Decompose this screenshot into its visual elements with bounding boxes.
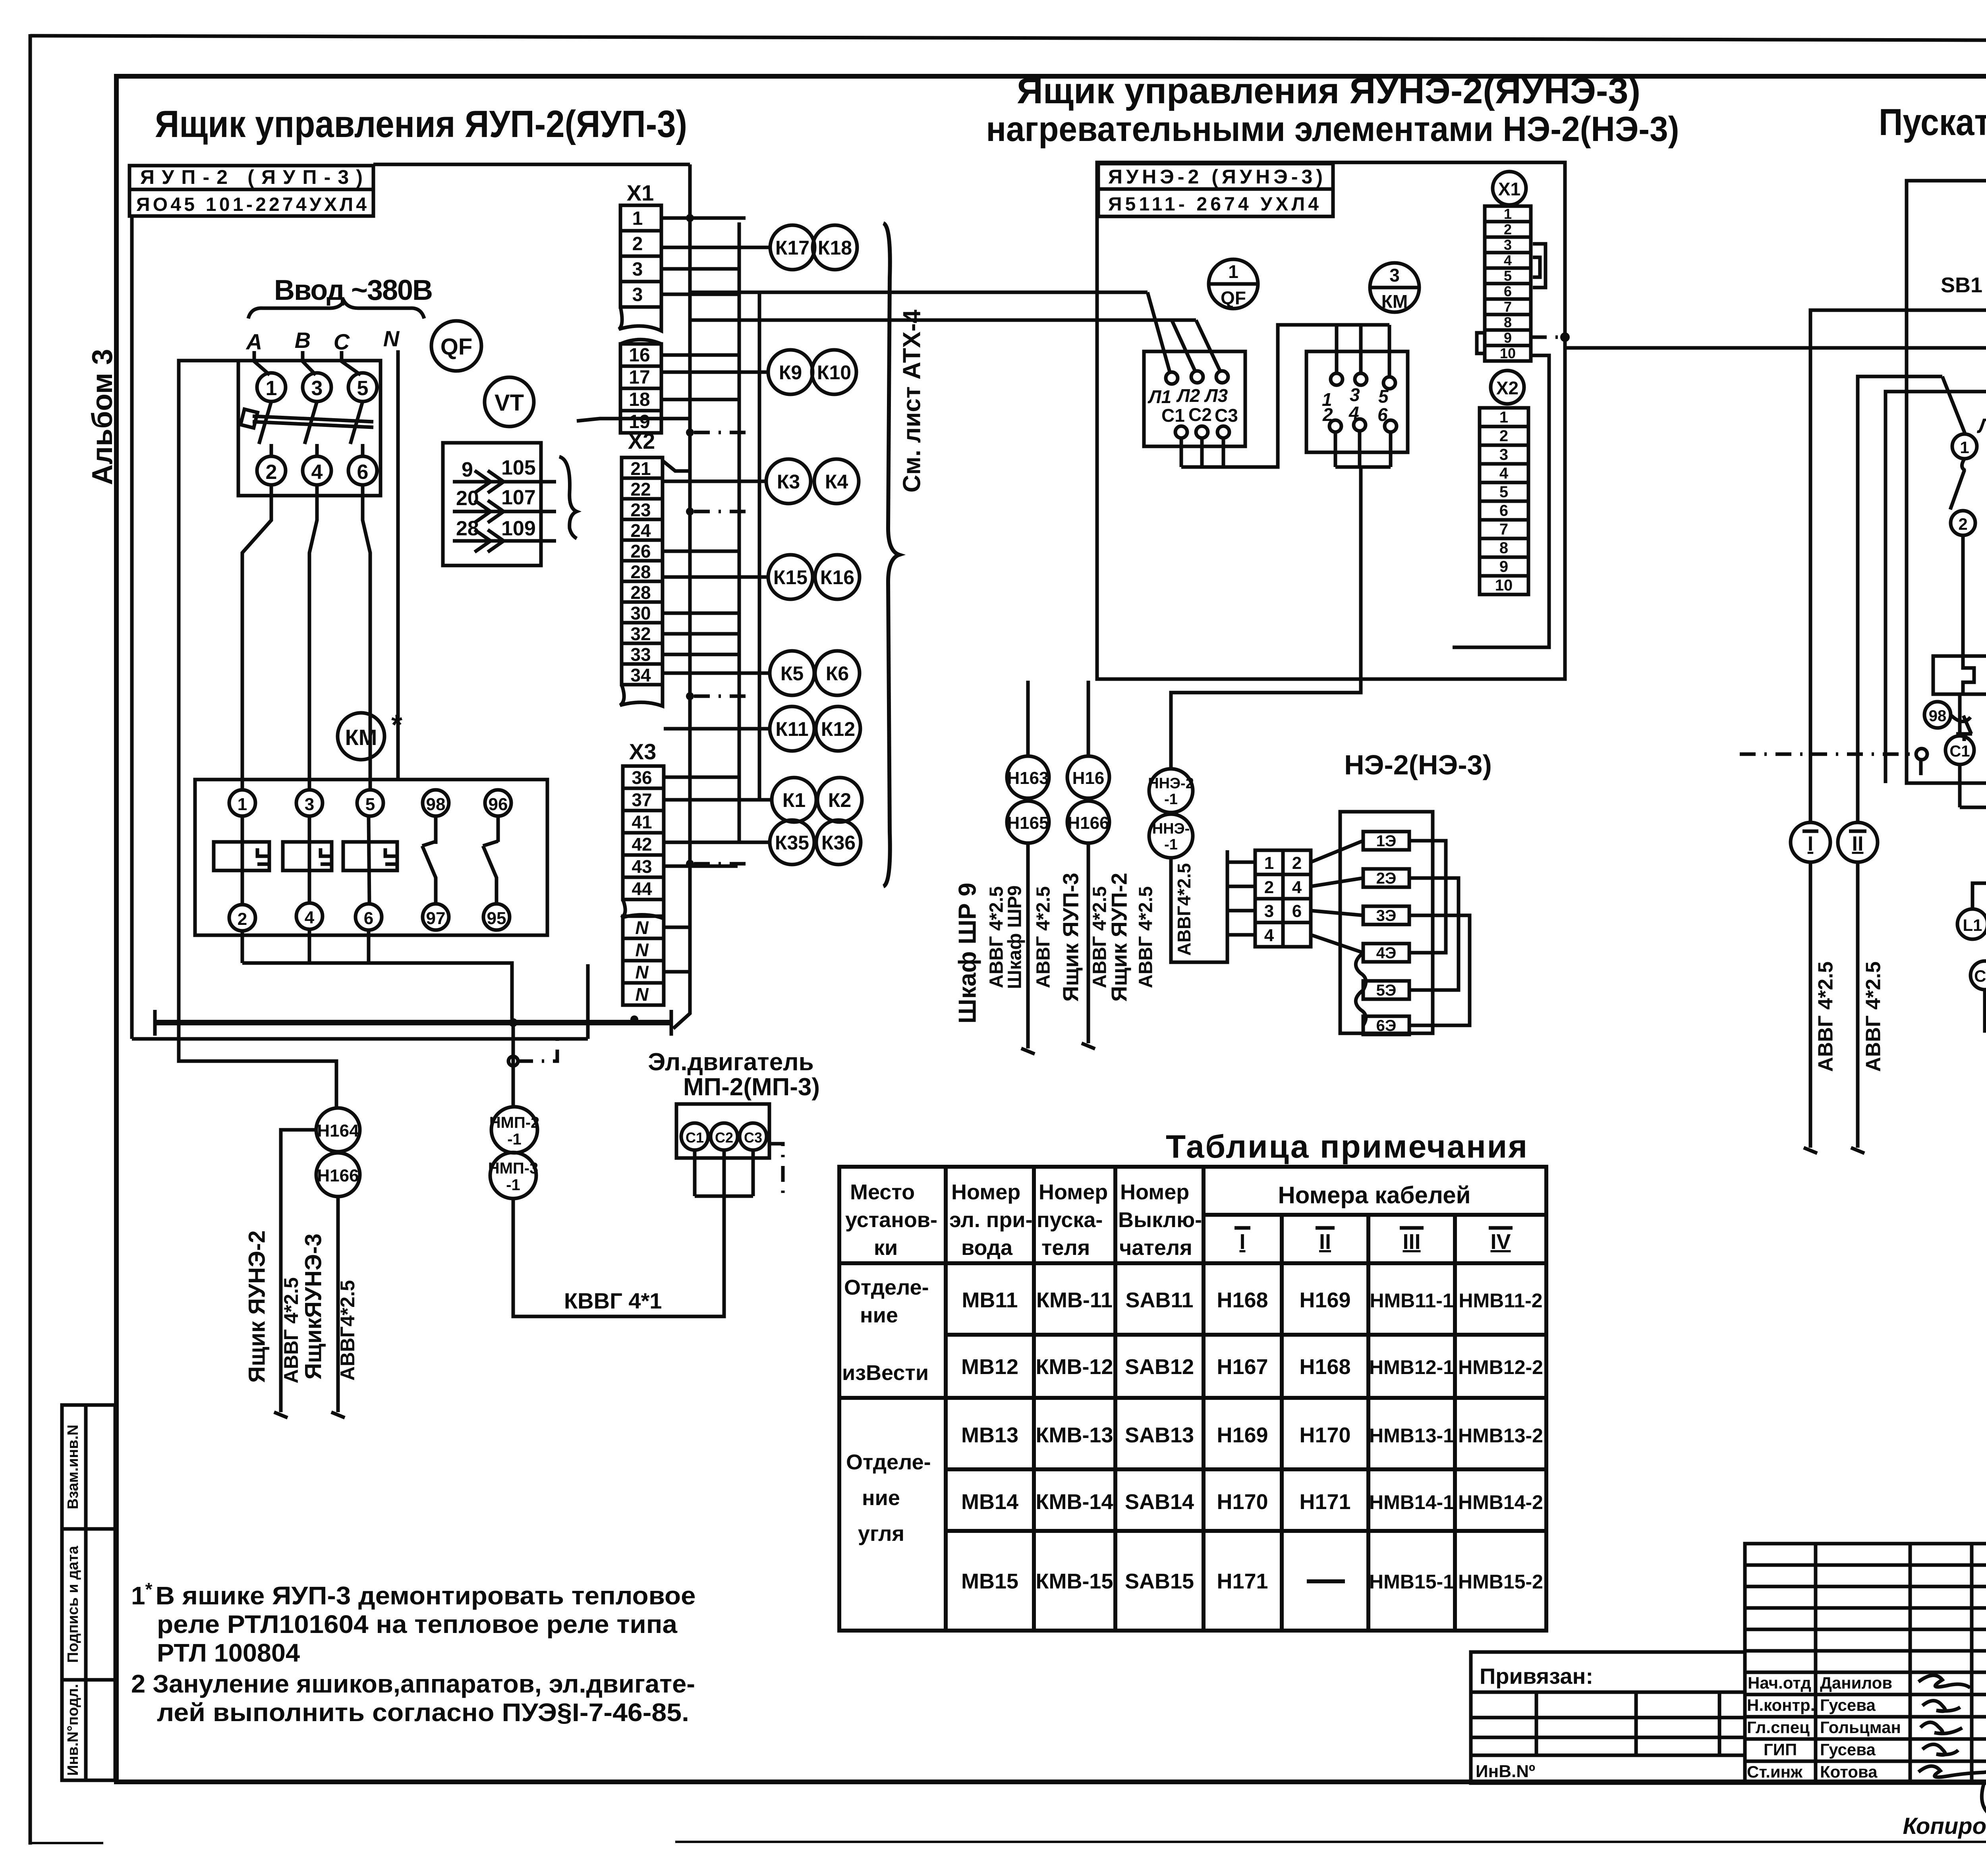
wire output bar bbox=[1960, 806, 1986, 809]
KM terminal 2 bbox=[1329, 420, 1341, 432]
svg-text:1: 1 bbox=[1264, 853, 1274, 873]
svg-text:КМВ-13: КМВ-13 bbox=[1036, 1423, 1113, 1447]
svg-text:ние: ние bbox=[862, 1486, 900, 1510]
wire block to 2E bbox=[1311, 878, 1363, 886]
sheet outer border left bbox=[29, 34, 32, 1845]
svg-text:Л3: Л3 bbox=[1204, 385, 1228, 406]
aux terminal 98 bbox=[1924, 702, 1951, 728]
relay K36 bbox=[816, 820, 861, 865]
contactor KM contact box bbox=[195, 780, 547, 935]
QF handle bbox=[241, 409, 258, 428]
svg-text:С1: С1 bbox=[1974, 967, 1986, 985]
svg-text:22: 22 bbox=[630, 479, 651, 500]
svg-text:32: 32 bbox=[630, 623, 651, 644]
wire X2 to K15 bbox=[663, 575, 769, 579]
svg-text:6: 6 bbox=[364, 909, 373, 928]
cable line foot 1 bbox=[274, 1412, 288, 1418]
terminal X2 strip bbox=[1480, 408, 1528, 427]
starter enclosure bbox=[1907, 181, 1986, 783]
svg-text:Л1: Л1 bbox=[1976, 415, 1986, 438]
relay K1 bbox=[772, 778, 816, 822]
terminal X1 circle bbox=[1493, 172, 1526, 205]
svg-text:Таблица примечания: Таблица примечания bbox=[1166, 1129, 1527, 1165]
KM main contact 5-6 wire bbox=[369, 816, 369, 904]
wire X2 to K5 bbox=[663, 672, 770, 675]
wire KM output down bbox=[1171, 467, 1361, 770]
svg-text:1: 1 bbox=[1228, 261, 1238, 282]
QF terminal C1 bbox=[1175, 426, 1187, 438]
dash-dot motor МP bbox=[769, 1144, 783, 1196]
svg-text:28: 28 bbox=[630, 582, 651, 603]
svg-text:3: 3 bbox=[632, 284, 643, 305]
wire NNE to block bbox=[1171, 850, 1227, 962]
wire QF6 to KM5 bbox=[363, 485, 370, 789]
svg-text:20: 20 bbox=[456, 487, 479, 510]
svg-text:КМ: КМ bbox=[1381, 291, 1408, 312]
svg-text:41: 41 bbox=[632, 812, 652, 832]
label box divider bbox=[129, 188, 373, 191]
lamp NMP-2-1 bbox=[491, 1107, 537, 1153]
KM coil symbol 3 bbox=[343, 842, 397, 870]
svg-text:6: 6 bbox=[357, 461, 369, 484]
svg-text:6Э: 6Э bbox=[1376, 1017, 1397, 1035]
lamp H166 bbox=[1067, 801, 1109, 843]
svg-text:2: 2 bbox=[1958, 515, 1967, 533]
motor MP C3 bbox=[740, 1123, 767, 1150]
relay K3 bbox=[766, 459, 811, 504]
wire N stubs bbox=[664, 926, 690, 929]
KM terminal 3 bbox=[296, 790, 323, 816]
cable line to YaUP bbox=[1087, 843, 1090, 1043]
label box YaUP-2 bbox=[129, 166, 373, 216]
wire N vertical bbox=[396, 350, 400, 780]
dash-dot control tap bbox=[1740, 754, 1921, 780]
svg-text:К12: К12 bbox=[821, 718, 855, 740]
svg-text:30: 30 bbox=[630, 603, 651, 623]
svg-text:28: 28 bbox=[630, 562, 651, 582]
wire long feeder middle bbox=[1565, 292, 1986, 348]
svg-text:К9: К9 bbox=[779, 361, 802, 384]
heater element 4E bbox=[1363, 944, 1409, 962]
svg-text:МВ12: МВ12 bbox=[961, 1355, 1018, 1379]
wire VT to X2 bbox=[577, 419, 690, 421]
contactor designator circle 3/KM bbox=[1370, 263, 1419, 312]
wire aux vertical 2 bbox=[758, 292, 761, 800]
wire long feeder II bbox=[1858, 376, 1942, 822]
svg-text:С2: С2 bbox=[715, 1129, 733, 1146]
hook 4E-5E bbox=[1356, 953, 1366, 990]
motor MP terminal box bbox=[676, 1104, 769, 1158]
svg-text:2Э: 2Э bbox=[1376, 870, 1397, 887]
svg-text:44: 44 bbox=[632, 878, 652, 899]
motor terminal L1 bbox=[1957, 909, 1986, 939]
transformer VT designator circle bbox=[485, 377, 534, 427]
wire X1-10 loop bbox=[1453, 355, 1549, 647]
svg-text:АВВГ 4*2.5: АВВГ 4*2.5 bbox=[1814, 961, 1837, 1072]
svg-text:Н164: Н164 bbox=[317, 1121, 359, 1141]
svg-text:Ящик ЯУП-2: Ящик ЯУП-2 bbox=[1107, 873, 1132, 1002]
wire feeder 4 bbox=[1886, 392, 1986, 783]
enclosure right stub bbox=[586, 964, 590, 1039]
output terminal C1 bbox=[1945, 736, 1974, 764]
wire block to 1E bbox=[1311, 841, 1363, 862]
KM terminal 97 bbox=[423, 904, 449, 930]
QF pole 6 circle bbox=[348, 456, 377, 485]
svg-text:Ящик ЯУНЭ-2: Ящик ЯУНЭ-2 bbox=[244, 1230, 270, 1383]
svg-text:42: 42 bbox=[632, 834, 652, 855]
breaker QF designator circle bbox=[431, 321, 481, 371]
left margin strip row line 2 bbox=[62, 1678, 115, 1682]
wire X1 cell stubs bbox=[661, 216, 738, 220]
svg-text:Н163: Н163 bbox=[1007, 768, 1049, 788]
svg-text:АВВГ4*2.5: АВВГ4*2.5 bbox=[336, 1280, 359, 1380]
svg-text:4: 4 bbox=[1499, 465, 1509, 482]
svg-text:10: 10 bbox=[1495, 577, 1513, 594]
svg-text:-1: -1 bbox=[1164, 836, 1178, 853]
cable line yashchik YaUNE-3 bbox=[336, 1197, 340, 1412]
enclosure box bbox=[1097, 162, 1565, 679]
lamp H16 bbox=[1067, 756, 1109, 798]
svg-text:N: N bbox=[635, 940, 649, 960]
breaker QF box bbox=[238, 361, 381, 496]
wire X2 cell stubs bbox=[663, 550, 738, 553]
svg-text:7: 7 bbox=[1504, 299, 1512, 315]
svg-text:К11: К11 bbox=[775, 718, 808, 740]
wire series 2 bbox=[1409, 878, 1459, 990]
svg-text:чателя: чателя bbox=[1119, 1236, 1192, 1260]
svg-text:SАВ11: SАВ11 bbox=[1125, 1288, 1193, 1312]
svg-text:3: 3 bbox=[632, 259, 643, 280]
QF pole 3 circle bbox=[303, 373, 331, 401]
relay K18 bbox=[813, 225, 857, 270]
svg-text:Н168: Н168 bbox=[1299, 1355, 1350, 1379]
svg-text:5: 5 bbox=[1378, 386, 1389, 407]
terminal X1 block2 bbox=[620, 340, 661, 344]
wire main vertical bus bbox=[673, 164, 690, 1029]
svg-text:1: 1 bbox=[1960, 438, 1969, 457]
svg-text:КМВ-12: КМВ-12 bbox=[1036, 1355, 1113, 1379]
svg-text:К17: К17 bbox=[775, 237, 809, 259]
svg-text:АВВГ4*2.5: АВВГ4*2.5 bbox=[1174, 863, 1194, 955]
svg-text:С1: С1 bbox=[1161, 405, 1185, 426]
breaker designator circle 1/QF bbox=[1209, 259, 1258, 309]
svg-text:КМВ-11: КМВ-11 bbox=[1036, 1288, 1113, 1312]
table header lines bbox=[1204, 1213, 1546, 1217]
terminal N block bbox=[623, 916, 664, 938]
svg-text:ННЭ-2: ННЭ-2 bbox=[1148, 775, 1194, 792]
wire diag to 1 bbox=[1942, 376, 1965, 434]
binding block Privyazan bbox=[1471, 1652, 1745, 1783]
svg-text:Ящик управления ЯУНЭ-2(ЯУНЭ-3): Ящик управления ЯУНЭ-2(ЯУНЭ-3) bbox=[1017, 71, 1640, 111]
heater element 1E bbox=[1363, 832, 1409, 850]
KM terminal 6 bbox=[1385, 420, 1397, 432]
svg-text:Котова: Котова bbox=[1820, 1762, 1878, 1781]
QF pole 1 circle bbox=[257, 373, 286, 401]
relay K17 bbox=[770, 225, 815, 270]
svg-text:N: N bbox=[383, 326, 400, 351]
dash in empty cell bbox=[1307, 1579, 1345, 1583]
svg-text:Взам.инв.N: Взам.инв.N bbox=[65, 1424, 81, 1509]
svg-text:5: 5 bbox=[1499, 483, 1508, 501]
cable circle I bbox=[1791, 822, 1830, 862]
svg-text:Х2: Х2 bbox=[628, 428, 655, 454]
svg-text:-1: -1 bbox=[507, 1131, 522, 1148]
wire feed diag 2 bbox=[1172, 320, 1196, 372]
KM terminal 95 bbox=[483, 904, 510, 930]
svg-text:109: 109 bbox=[501, 517, 536, 540]
svg-text:98: 98 bbox=[426, 795, 446, 814]
svg-text:МП-2(МП-3): МП-2(МП-3) bbox=[683, 1073, 820, 1101]
svg-text:Привязан:: Привязан: bbox=[1480, 1664, 1593, 1689]
svg-text:L1: L1 bbox=[1963, 916, 1982, 934]
motor terminal C1m bbox=[1971, 961, 1986, 990]
svg-text:Номер: Номер bbox=[1120, 1180, 1189, 1204]
svg-text:Я5111- 2674 УХЛ4: Я5111- 2674 УХЛ4 bbox=[1108, 194, 1319, 215]
svg-text:24: 24 bbox=[630, 520, 651, 541]
svg-text:4: 4 bbox=[305, 908, 315, 927]
svg-text:НМВ15-2: НМВ15-2 bbox=[1458, 1571, 1543, 1593]
hook 5E-6E bbox=[1356, 990, 1366, 1025]
svg-text:В: В bbox=[295, 328, 311, 353]
signatures squiggles bbox=[1918, 1675, 1986, 1813]
contactor KM designator circle bbox=[338, 713, 384, 760]
wire 2 down bbox=[1961, 537, 1965, 656]
wire block stubs bbox=[1227, 861, 1255, 864]
wire KM bottoms bbox=[1334, 432, 1337, 467]
wire to middle section lower bbox=[690, 318, 1196, 322]
svg-text:4: 4 bbox=[1292, 878, 1302, 897]
svg-text:КВВГ 4*1: КВВГ 4*1 bbox=[564, 1288, 662, 1313]
svg-text:9: 9 bbox=[1504, 330, 1512, 346]
svg-text:эл. при-: эл. при- bbox=[949, 1208, 1033, 1232]
relay K4 bbox=[814, 459, 859, 504]
svg-text:Н.контр.: Н.контр. bbox=[1747, 1696, 1815, 1714]
svg-text:К3: К3 bbox=[777, 471, 800, 493]
wire X1 to K9 bbox=[661, 371, 768, 374]
svg-text:3: 3 bbox=[1264, 901, 1274, 921]
svg-text:Н168: Н168 bbox=[1217, 1288, 1268, 1312]
relay K15 bbox=[768, 555, 813, 599]
svg-text:*: * bbox=[391, 709, 402, 741]
contact blade 1-2 bbox=[1950, 459, 1965, 510]
svg-text:АВВГ 4*2.5: АВВГ 4*2.5 bbox=[1033, 886, 1054, 988]
svg-text:4Э: 4Э bbox=[1376, 944, 1397, 962]
X2 torn edge bbox=[620, 685, 663, 706]
svg-text:ННЭ-: ННЭ- bbox=[1152, 820, 1190, 837]
QF blade 1 bbox=[259, 401, 271, 444]
svg-text:Гусева: Гусева bbox=[1820, 1696, 1876, 1714]
wire to middle section upper bbox=[690, 291, 1148, 294]
svg-text:4: 4 bbox=[311, 461, 323, 484]
svg-text:II: II bbox=[1852, 832, 1864, 855]
wire feed diag 1 bbox=[1148, 292, 1170, 373]
KM terminal 1 bbox=[229, 790, 255, 816]
KM terminal 4 bbox=[296, 903, 323, 929]
QF terminal L1 bbox=[1166, 372, 1178, 384]
svg-text:С3: С3 bbox=[1215, 405, 1238, 426]
svg-text:Место: Место bbox=[850, 1180, 915, 1204]
svg-text:Гольцман: Гольцман bbox=[1820, 1718, 1901, 1737]
X1 torn edge bbox=[619, 307, 661, 331]
enclosure top edge bbox=[373, 163, 690, 166]
cable line to ShR9 bbox=[1026, 843, 1030, 1048]
bus junction dot bbox=[509, 1018, 518, 1027]
heater terminal block bbox=[1255, 850, 1311, 947]
wire X3 to K11 bbox=[664, 727, 770, 731]
svg-text:5: 5 bbox=[357, 377, 369, 400]
wire motor C3 bbox=[752, 1150, 755, 1196]
svg-text:НЭ-2(НЭ-3): НЭ-2(НЭ-3) bbox=[1344, 749, 1492, 780]
svg-text:I: I bbox=[1239, 1230, 1245, 1254]
QF blade 5 bbox=[350, 401, 363, 444]
svg-text:МВ14: МВ14 bbox=[961, 1490, 1018, 1514]
svg-text:теля: теля bbox=[1041, 1236, 1090, 1260]
svg-text:Номер: Номер bbox=[951, 1180, 1020, 1204]
wire KM4 down bbox=[308, 929, 311, 963]
svg-text:НМВ14-2: НМВ14-2 bbox=[1458, 1491, 1543, 1513]
QF linkage bar bbox=[253, 416, 373, 422]
svg-text:Нач.отд: Нач.отд bbox=[1748, 1673, 1811, 1692]
svg-text:26: 26 bbox=[630, 541, 651, 562]
svg-text:Н171: Н171 bbox=[1299, 1490, 1350, 1514]
svg-text:IV: IV bbox=[1490, 1230, 1511, 1254]
relay K5 bbox=[770, 651, 814, 695]
junction dot 2 bbox=[630, 1015, 638, 1023]
wire long feeder I bbox=[1810, 310, 1986, 822]
junction on NMP drop bbox=[508, 1056, 518, 1066]
wire X2-21 branch bbox=[663, 461, 690, 471]
svg-text:К2: К2 bbox=[828, 789, 851, 811]
wire series 1 bbox=[1409, 841, 1446, 953]
svg-text:QF: QF bbox=[1221, 288, 1246, 308]
terminal X3 block bbox=[623, 766, 664, 788]
svg-text:37: 37 bbox=[632, 789, 652, 810]
svg-text:SB1: SB1 bbox=[1941, 273, 1982, 297]
svg-text:вода: вода bbox=[961, 1236, 1013, 1260]
svg-text:17: 17 bbox=[629, 367, 650, 388]
svg-text:Ст.инж: Ст.инж bbox=[1747, 1762, 1803, 1781]
svg-text:Гл.спец: Гл.спец bbox=[1747, 1718, 1810, 1737]
svg-text:23: 23 bbox=[630, 500, 651, 520]
wire QF2 to KM1 bbox=[242, 485, 271, 789]
heater element 5E bbox=[1363, 981, 1409, 999]
wire block to 4E bbox=[1311, 935, 1363, 953]
svg-text:ние: ние bbox=[860, 1303, 898, 1327]
svg-text:РТЛ 100804: РТЛ 100804 bbox=[157, 1639, 300, 1667]
svg-text:К16: К16 bbox=[820, 566, 854, 589]
svg-text:НМВ14-1: НМВ14-1 bbox=[1369, 1491, 1454, 1513]
lamp H166 bbox=[316, 1153, 360, 1197]
lamp NNE-1 bbox=[1149, 814, 1193, 858]
svg-text:4: 4 bbox=[1264, 926, 1274, 945]
svg-text:А: А bbox=[245, 329, 262, 354]
svg-text:3: 3 bbox=[1499, 446, 1508, 463]
svg-text:4: 4 bbox=[1504, 252, 1512, 268]
heater element 6E bbox=[1363, 1016, 1409, 1035]
svg-text:Н165: Н165 bbox=[1007, 813, 1049, 833]
svg-text:См. лист АТХ-4: См. лист АТХ-4 bbox=[898, 309, 925, 492]
bottom rule bbox=[675, 1841, 1986, 1843]
svg-text:С1: С1 bbox=[686, 1129, 704, 1146]
svg-text:Пускатель КМВ11(КМВ12÷КМВ15): Пускатель КМВ11(КМВ12÷КМВ15) bbox=[1879, 101, 1986, 143]
sheet outer border top bbox=[30, 36, 1986, 41]
left margin strip box bbox=[62, 1405, 115, 1780]
svg-text:НМП-2: НМП-2 bbox=[489, 1114, 540, 1131]
svg-text:Ввод ~380В: Ввод ~380В bbox=[274, 274, 433, 306]
svg-text:SАВ15: SАВ15 bbox=[1125, 1569, 1194, 1593]
svg-text:К18: К18 bbox=[818, 237, 852, 259]
svg-text:1Э: 1Э bbox=[1376, 832, 1397, 850]
wire KM tops bbox=[1335, 325, 1339, 373]
big brace see sheet ATX-4 bbox=[883, 223, 899, 886]
KM aux contact 98-97 bbox=[434, 816, 438, 844]
svg-text:Н167: Н167 bbox=[1217, 1355, 1268, 1379]
KM terminal 5 bbox=[357, 790, 383, 816]
svg-text:Н166: Н166 bbox=[317, 1166, 359, 1185]
svg-text:105: 105 bbox=[501, 456, 536, 479]
svg-text:ЯщикЯУНЭ-3: ЯщикЯУНЭ-3 bbox=[300, 1233, 326, 1380]
QF terminal L3 bbox=[1216, 371, 1228, 383]
table data rows bbox=[961, 1288, 1543, 1593]
svg-text:НМВ12-2: НМВ12-2 bbox=[1458, 1356, 1543, 1378]
svg-text:реле РТЛ101604 на тепловое рел: реле РТЛ101604 на тепловое реле типа bbox=[157, 1610, 677, 1639]
wire motor link bar bbox=[695, 1195, 753, 1198]
svg-text:5Э: 5Э bbox=[1376, 982, 1397, 999]
QF terminal C3 bbox=[1217, 426, 1229, 438]
wire X3 to K35 bbox=[664, 841, 770, 844]
motor hookup frame bbox=[1972, 883, 1986, 909]
svg-text:Эл.двигатель: Эл.двигатель bbox=[648, 1048, 813, 1076]
QF terminal C2 bbox=[1196, 426, 1208, 438]
wire KM2 down bbox=[241, 931, 244, 963]
svg-text:43: 43 bbox=[632, 856, 652, 877]
wire relay to C1 bbox=[1958, 694, 1962, 736]
svg-text:Х1: Х1 bbox=[627, 180, 654, 205]
svg-text:ЯУП-2 (ЯУП-3): ЯУП-2 (ЯУП-3) bbox=[140, 166, 363, 188]
svg-text:SАВ13: SАВ13 bbox=[1125, 1423, 1194, 1447]
KM terminal 5 bbox=[1383, 377, 1395, 389]
wire X1 to K17 bbox=[661, 246, 771, 249]
breaker QF box bbox=[1144, 351, 1245, 446]
lamp NMP-3-1 bbox=[490, 1152, 536, 1199]
svg-text:96: 96 bbox=[489, 795, 508, 814]
cable line foot 2 bbox=[331, 1412, 345, 1418]
dash-dot tap NMP bbox=[517, 1033, 557, 1061]
terminal X1 block1 bbox=[620, 205, 661, 231]
svg-text:2: 2 bbox=[266, 461, 277, 484]
wire phase B drop bbox=[303, 351, 316, 375]
relay K9 bbox=[768, 350, 813, 394]
svg-text:2: 2 bbox=[1322, 404, 1333, 425]
svg-text:КМ: КМ bbox=[345, 725, 377, 750]
left margin strip divider bbox=[84, 1405, 88, 1780]
QF pole 5 circle bbox=[348, 373, 377, 401]
junction dots on bus bbox=[686, 214, 694, 222]
table row lines bbox=[946, 1333, 1546, 1337]
svg-text:21: 21 bbox=[630, 458, 651, 479]
lamp H165 bbox=[1007, 801, 1049, 843]
svg-text:НМП-3: НМП-3 bbox=[488, 1160, 539, 1177]
wire drop to H16 bbox=[1087, 681, 1090, 756]
svg-text:3: 3 bbox=[311, 377, 323, 400]
cable foot bbox=[1021, 1048, 1035, 1054]
svg-text:4: 4 bbox=[1348, 403, 1359, 423]
svg-text:Х2: Х2 bbox=[1496, 378, 1518, 398]
relay K10 bbox=[812, 350, 856, 394]
relay K12 bbox=[816, 706, 860, 751]
svg-text:N: N bbox=[635, 962, 649, 982]
dash-dot taps bbox=[694, 216, 751, 220]
